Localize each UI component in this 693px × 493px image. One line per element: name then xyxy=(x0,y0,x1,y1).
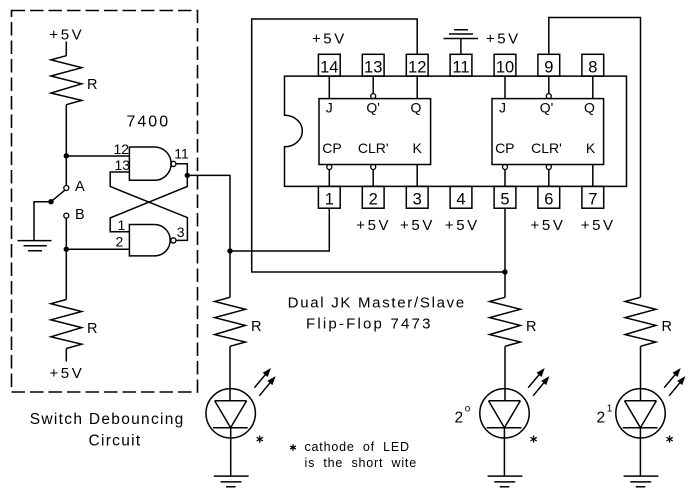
LED D1 triangle xyxy=(215,401,247,428)
pin 7 box xyxy=(582,186,604,208)
svg-text:2: 2 xyxy=(455,410,464,427)
wire junction down to R4 xyxy=(504,272,506,297)
svg-text:K: K xyxy=(413,140,423,156)
resistor R4 xyxy=(490,297,521,346)
pin 1 box xyxy=(318,186,340,208)
IC U2 7473 body xyxy=(285,76,627,186)
resistor R2 xyxy=(51,300,82,349)
pin 3 box xyxy=(406,186,428,208)
ground (LED1) xyxy=(214,476,249,487)
wire IC pin 12 to top rail xyxy=(252,19,505,272)
svg-text:13: 13 xyxy=(115,157,131,173)
LED D3 triangle xyxy=(625,401,657,428)
pin 14 box xyxy=(318,54,340,76)
svg-text:+5V: +5V xyxy=(581,217,616,234)
pin 12 box xyxy=(406,54,428,76)
svg-text:3: 3 xyxy=(177,224,185,240)
pin5/Q junction dot xyxy=(502,269,507,274)
svg-text:+5V: +5V xyxy=(49,365,84,382)
svg-text:CP: CP xyxy=(495,140,514,156)
LED D3 anode bar xyxy=(625,400,657,402)
svg-text:J: J xyxy=(499,100,506,116)
switch blade xyxy=(51,190,65,202)
LED D1 cathode bar xyxy=(213,427,248,429)
cross wire U1A output to U1B input 1 xyxy=(110,175,187,231)
LED D1 circle xyxy=(206,389,255,438)
ground above pin 11 symbol xyxy=(444,30,479,39)
pin 12 to Q1 wire xyxy=(416,76,418,99)
wire LED2 to ground xyxy=(503,428,505,476)
wire R3 to LED1 xyxy=(229,346,231,400)
pin 14 to J1 wire xyxy=(328,76,330,99)
svg-text:R: R xyxy=(87,321,97,337)
svg-text:1: 1 xyxy=(118,217,126,233)
clock node junction dot xyxy=(227,248,232,253)
pin 6 box xyxy=(538,186,560,208)
wire node B down to R2 xyxy=(65,249,67,299)
svg-text:R: R xyxy=(251,319,261,335)
svg-text:10: 10 xyxy=(496,59,514,77)
wire U1A output to junction xyxy=(176,164,187,176)
svg-text:14: 14 xyxy=(320,59,338,77)
pin 4 box xyxy=(450,186,472,208)
wire node to gate input 12 xyxy=(66,155,129,157)
pin 5 box xyxy=(494,186,516,208)
resistor R3 xyxy=(215,297,246,346)
nand gate U1A output bubble xyxy=(171,161,176,166)
pin 2 box xyxy=(362,186,384,208)
switch contact B circle xyxy=(64,213,69,218)
svg-text:2: 2 xyxy=(369,191,378,209)
svg-text:1: 1 xyxy=(607,404,613,415)
wire IC pin 9 to top-right rail down to R5 xyxy=(549,18,641,298)
LED D3 cathode asterisk xyxy=(667,436,673,443)
svg-text:9: 9 xyxy=(544,59,553,77)
wire IC pin 5 down to junction xyxy=(504,208,506,272)
pin 2 to CLR'1 wire with bubble xyxy=(371,165,376,170)
svg-text:3: 3 xyxy=(413,191,422,209)
pin 1 to CP1 wire with bubble xyxy=(327,165,332,170)
pin 8 box xyxy=(582,54,604,76)
svg-text:CLR': CLR' xyxy=(358,140,389,156)
LED D3 light arrow 2 xyxy=(669,381,681,396)
wire latch output to clock node xyxy=(187,175,230,251)
svg-text:+5V: +5V xyxy=(49,26,84,43)
svg-text:is the short wite: is the short wite xyxy=(305,456,417,470)
cross wire U1B output to U1A input 13 xyxy=(110,172,187,240)
LED D2 cathode bar xyxy=(487,427,522,429)
svg-text:Q: Q xyxy=(584,100,595,116)
LED D3 circle xyxy=(616,389,665,438)
pin 13 box xyxy=(362,54,384,76)
wire clock node to IC pin 1 xyxy=(230,208,329,251)
svg-text:2: 2 xyxy=(597,410,606,427)
LED D3 cathode bar xyxy=(623,427,658,429)
svg-text:8: 8 xyxy=(588,59,597,77)
svg-text:Dual JK Master/Slave: Dual JK Master/Slave xyxy=(288,295,466,312)
ground (switch) xyxy=(18,241,52,251)
svg-text:cathode of LED: cathode of LED xyxy=(305,440,410,454)
svg-text:CP: CP xyxy=(322,140,341,156)
svg-text:12: 12 xyxy=(114,141,130,157)
pin 9 box xyxy=(538,54,560,76)
svg-text:+5V: +5V xyxy=(486,31,521,48)
node B junction dot xyxy=(64,247,69,252)
wire LED1 to ground xyxy=(230,428,232,476)
resistor R1 xyxy=(51,56,82,105)
pin 3 to K1 wire xyxy=(416,165,418,187)
pin 13 to Q'1 wire with bubble xyxy=(372,76,374,94)
svg-text:Q: Q xyxy=(411,100,422,116)
svg-text:5: 5 xyxy=(500,191,509,209)
pin 10 to J2 wire xyxy=(504,76,506,99)
pin 6 to CLR'2 wire with bubble xyxy=(546,165,551,170)
flip-flop 2 inner box xyxy=(492,99,604,165)
LED D2 light arrow 2 xyxy=(533,381,545,396)
svg-text:Switch Debouncing: Switch Debouncing xyxy=(30,411,185,428)
svg-text:11: 11 xyxy=(452,59,469,77)
svg-text:A: A xyxy=(75,179,85,195)
ground above pin 11: wire xyxy=(460,39,462,55)
switch contact A circle xyxy=(64,186,69,191)
svg-text:1: 1 xyxy=(325,191,334,209)
pin 5 to CP2 wire with bubble xyxy=(503,165,508,170)
LED D1 cathode asterisk xyxy=(257,436,263,443)
svg-text:R: R xyxy=(526,319,536,335)
svg-text:+5V: +5V xyxy=(531,217,566,234)
svg-text:+5V: +5V xyxy=(356,217,391,234)
wire LED3 to ground xyxy=(639,428,641,476)
nand gate U1B body xyxy=(129,225,170,256)
flip-flop 1 inner box xyxy=(319,99,431,165)
resistor R5 xyxy=(625,297,656,346)
svg-text:R: R xyxy=(87,77,97,93)
svg-text:B: B xyxy=(75,207,85,223)
svg-text:2: 2 xyxy=(116,234,124,250)
pin 7 to K2 wire xyxy=(592,165,594,187)
svg-text:+5V: +5V xyxy=(400,217,435,234)
svg-text:Flip-Flop 7473: Flip-Flop 7473 xyxy=(306,316,433,333)
wire R4 to LED2 xyxy=(504,346,506,400)
wire junction down to switch contact A xyxy=(65,156,67,186)
svg-text:13: 13 xyxy=(364,59,382,77)
wire clock node down to R3 xyxy=(229,251,231,297)
wire R2 to +5V xyxy=(65,349,67,362)
svg-text:Q': Q' xyxy=(540,100,554,116)
pin 8 to Q2 wire xyxy=(592,76,594,99)
LED D2 triangle xyxy=(489,401,521,428)
note asterisk xyxy=(290,444,296,451)
pin 11 box xyxy=(450,54,472,76)
wire contact B down to node B junction xyxy=(65,218,67,249)
wire +5V to R1 xyxy=(65,42,67,56)
svg-text:7400: 7400 xyxy=(127,114,171,131)
LED D2 anode bar xyxy=(489,400,521,402)
LED D2 circle xyxy=(480,389,529,438)
switch pole dot xyxy=(48,199,53,204)
nand gate U1B output bubble xyxy=(171,238,176,243)
dashed box (switch debouncing circuit boundary) xyxy=(12,11,198,393)
svg-text:R: R xyxy=(662,319,672,335)
svg-text:12: 12 xyxy=(408,59,426,77)
svg-text:7: 7 xyxy=(588,191,597,209)
svg-text:o: o xyxy=(465,404,471,415)
svg-text:Circuit: Circuit xyxy=(88,433,141,450)
svg-text:+5V: +5V xyxy=(312,31,347,48)
svg-text:+5V: +5V xyxy=(445,217,480,234)
wire pole to ground xyxy=(34,202,51,240)
svg-text:K: K xyxy=(586,140,596,156)
LED D2 light arrow 1 xyxy=(528,373,540,388)
LED D3 light arrow 1 xyxy=(664,373,676,388)
node A junction dot xyxy=(64,153,69,158)
ground (LED2) xyxy=(488,476,523,487)
latch output junction dot xyxy=(185,173,190,178)
svg-text:Q': Q' xyxy=(366,100,380,116)
nand gate U1A body xyxy=(129,147,171,180)
pin 10 box xyxy=(494,54,516,76)
ground (LED3) xyxy=(624,476,659,487)
pin 9 to Q'2 wire with bubble xyxy=(548,76,550,94)
svg-text:6: 6 xyxy=(544,191,553,209)
svg-text:11: 11 xyxy=(174,146,189,162)
LED D2 cathode asterisk xyxy=(531,436,537,443)
svg-text:4: 4 xyxy=(456,191,465,209)
svg-text:CLR': CLR' xyxy=(531,140,562,156)
svg-text:J: J xyxy=(326,100,333,116)
LED D1 anode bar xyxy=(215,400,247,402)
wire R1 to node A junction xyxy=(65,105,67,156)
wire node B to gate input 2 xyxy=(66,248,129,250)
LED D1 light arrow 1 xyxy=(254,373,266,388)
wire R5 to LED3 xyxy=(640,346,642,400)
LED D1 light arrow 2 xyxy=(259,381,271,396)
